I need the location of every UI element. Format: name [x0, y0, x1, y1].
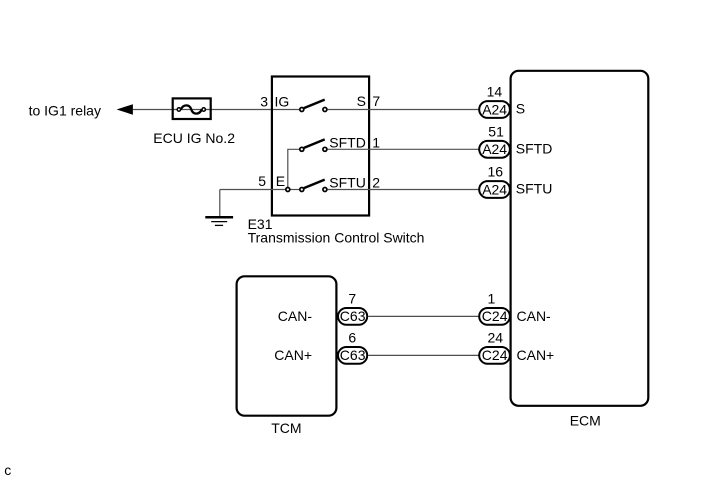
fuse ECU IG No.2 [173, 98, 300, 119]
connector A24 (SFTD) [479, 141, 510, 158]
svg-text:5: 5 [258, 173, 266, 189]
pin 2 (switch SFTU) [372, 174, 380, 190]
pin 1 (switch SFTD) [372, 135, 380, 151]
label CAN- (TCM) [278, 308, 313, 324]
svg-text:SFTU: SFTU [329, 174, 366, 190]
switch IG-S lever [304, 100, 325, 109]
switch SFTU contact left [300, 188, 304, 192]
svg-text:ECM: ECM [570, 412, 601, 428]
connector C63 (CAN+) [338, 347, 367, 364]
connector C24 (CAN+) [479, 347, 510, 364]
ground [205, 217, 233, 225]
copyright mark c [4, 462, 11, 478]
ECM box [511, 71, 649, 406]
svg-text:CAN+: CAN+ [274, 347, 312, 363]
svg-text:c: c [4, 462, 11, 478]
pin 1 (C24 CAN-) [488, 290, 496, 306]
switch SFTU contact right [323, 188, 327, 192]
label ECM [570, 412, 601, 428]
label S (switch) [357, 93, 366, 109]
svg-text:6: 6 [348, 329, 356, 345]
svg-text:CAN-: CAN- [278, 308, 313, 324]
switch SFTD contact right [323, 147, 327, 151]
svg-text:C24: C24 [482, 347, 508, 363]
svg-text:51: 51 [488, 123, 504, 139]
label E [276, 173, 285, 189]
switch SFTD contact left [300, 147, 304, 151]
connector A24 (SFTU) [479, 181, 510, 198]
svg-text:CAN-: CAN- [517, 308, 552, 324]
svg-text:S: S [357, 93, 366, 109]
wire SFTD contact to A24 pin51 (row SFTD) [328, 148, 479, 150]
svg-text:2: 2 [372, 174, 380, 190]
pin 5 [258, 173, 266, 189]
pin 14 [487, 84, 503, 100]
wire SFTD internal L to E node [288, 149, 299, 187]
svg-text:CAN+: CAN+ [517, 347, 555, 363]
svg-text:1: 1 [372, 135, 380, 151]
pin 7 (switch S) [372, 93, 380, 109]
switch SFTD lever [304, 139, 325, 148]
pin 51 [488, 123, 504, 139]
label IG [275, 93, 290, 109]
switch IG-S contact left [300, 108, 304, 112]
svg-text:A24: A24 [482, 181, 507, 197]
label E31 [248, 216, 273, 232]
svg-text:ECU IG No.2: ECU IG No.2 [153, 130, 235, 146]
label to IG1 relay [29, 103, 101, 119]
svg-text:Transmission Control Switch: Transmission Control Switch [248, 229, 425, 245]
svg-text:A24: A24 [482, 141, 507, 157]
svg-text:16: 16 [488, 164, 504, 180]
connector A24 (S) [479, 101, 510, 118]
wire S contact to A24 pin14 (row S) [328, 109, 479, 111]
svg-text:A24: A24 [482, 101, 507, 117]
svg-text:C24: C24 [482, 308, 508, 324]
pin 6 (C63 CAN+) [348, 329, 356, 345]
label SFTD (ECM) [516, 141, 553, 157]
label CAN+ (TCM) [274, 347, 312, 363]
svg-text:SFTU: SFTU [516, 181, 553, 197]
label ECU IG No.2 [153, 130, 235, 146]
wire arrow to fuse (row IG) [133, 109, 177, 111]
svg-text:S: S [516, 101, 525, 117]
svg-text:SFTD: SFTD [516, 141, 553, 157]
pin 24 (C24 CAN+) [488, 329, 504, 345]
wire SFTU contact to A24 pin16 (row SFTU) [328, 189, 479, 191]
svg-text:to IG1 relay: to IG1 relay [29, 103, 101, 119]
wire E node to SFTU contact [290, 189, 299, 191]
wire CAN- C63 to C24 [368, 315, 479, 317]
label CAN+ (ECM) [517, 347, 555, 363]
svg-text:C63: C63 [340, 347, 366, 363]
pin 7 (C63 CAN-) [348, 290, 356, 306]
svg-text:7: 7 [372, 93, 380, 109]
svg-text:7: 7 [348, 290, 356, 306]
svg-text:1: 1 [488, 290, 496, 306]
connector C24 (CAN-) [479, 308, 510, 325]
svg-text:14: 14 [487, 84, 503, 100]
wire CAN+ C63 to C24 [368, 354, 479, 356]
label CAN- (ECM) [517, 308, 552, 324]
svg-text:24: 24 [488, 329, 504, 345]
node E junction [286, 188, 290, 192]
pin 16 [488, 164, 504, 180]
switch SFTU lever [304, 180, 325, 189]
label TCM [271, 420, 301, 436]
TCM box [237, 276, 337, 415]
svg-text:3: 3 [260, 93, 268, 109]
svg-text:IG: IG [275, 93, 290, 109]
connector C63 (CAN-) [338, 308, 367, 325]
svg-text:SFTD: SFTD [329, 135, 366, 151]
svg-text:C63: C63 [340, 308, 366, 324]
switch box E31 [272, 77, 369, 216]
label SFTU (ECM) [516, 181, 553, 197]
svg-text:E: E [276, 173, 285, 189]
arrow to IG1 relay [117, 104, 133, 115]
label SFTD (switch) [329, 135, 366, 151]
label SFTU (switch) [329, 174, 366, 190]
svg-text:TCM: TCM [271, 420, 301, 436]
pin 3 [260, 93, 268, 109]
wire ground riser [219, 190, 221, 217]
switch IG-S contact right [323, 108, 327, 112]
label Transmission Control Switch [248, 229, 425, 245]
label S (ECM) [516, 101, 525, 117]
wire ground to E node [220, 189, 285, 191]
